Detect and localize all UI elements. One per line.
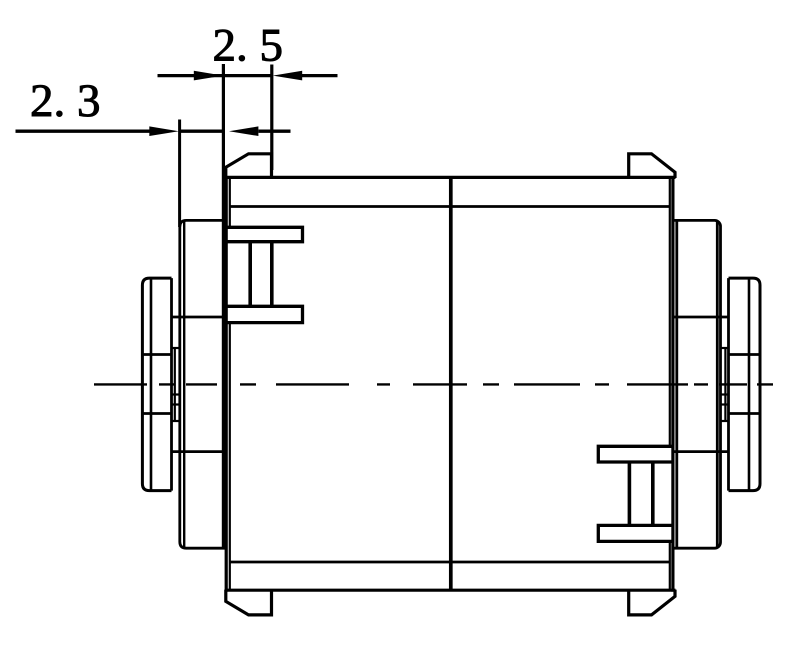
right shaft tick 4	[721, 420, 729, 422]
body left edge	[225, 176, 228, 592]
body right edge	[671, 176, 674, 592]
right terminal leg 2	[651, 462, 655, 525]
right small boss horizontal lower	[729, 412, 761, 415]
right shaft boss vertical	[724, 348, 726, 421]
dimension 2.5 arrow left	[194, 71, 223, 81]
right shaft tick 2	[721, 393, 729, 395]
left shaft tick 3	[172, 403, 180, 405]
left small boss right edge	[170, 278, 173, 491]
right end cap outer contour	[674, 220, 721, 548]
dimension 2.3 extension line	[178, 120, 181, 228]
left shaft tick 2	[172, 393, 180, 395]
right terminal bottom bar	[598, 525, 673, 541]
left shaft tick 4	[172, 420, 180, 422]
left end cap lower block top edge	[172, 450, 227, 453]
right end cap inner face line	[716, 221, 719, 548]
left small boss horizontal upper	[142, 353, 171, 356]
right end cap upper block bottom edge	[674, 316, 729, 319]
svg-text:2. 3: 2. 3	[30, 75, 101, 127]
dimension 2.3 line left	[16, 130, 151, 133]
left shaft tick 1	[172, 347, 180, 349]
left shaft boss vertical	[174, 348, 176, 421]
left terminal leg 1	[248, 242, 252, 307]
top left tab with chamfer	[226, 154, 272, 178]
right shaft tick 1	[721, 347, 729, 349]
body top edge	[225, 176, 676, 179]
bottom left tab with chamfer	[226, 590, 272, 615]
svg-text:2. 5: 2. 5	[213, 20, 284, 72]
right end cap left boundary line	[675, 220, 678, 548]
left end cap inner face line	[183, 222, 185, 547]
body inner left line lower segment	[229, 324, 231, 590]
left small boss horizontal lower	[142, 412, 171, 415]
dimension 2.5 extension line right	[270, 65, 273, 171]
left end cap outer contour	[180, 220, 227, 548]
left terminal leg 2	[270, 242, 274, 307]
right shaft tick 3	[721, 403, 729, 405]
left end cap upper block bottom edge	[172, 316, 227, 319]
body inner right line lower segment	[669, 543, 671, 590]
dimension 2.3 arrow right	[229, 126, 258, 136]
dimension 2.5 line right	[302, 74, 338, 77]
dimension 2.3 arrow left	[149, 126, 179, 136]
body inner bottom line	[230, 561, 670, 564]
right small boss outline	[729, 278, 761, 491]
bottom right tab with chamfer	[629, 590, 675, 615]
top right tab with chamfer	[629, 154, 675, 178]
dimension 2.3 line tail right	[259, 130, 291, 133]
body inner right line upper segment	[669, 179, 671, 446]
dimension 2.5 line left	[158, 74, 223, 77]
right end cap lower block top edge	[674, 450, 729, 453]
left terminal top bar	[228, 227, 303, 241]
right terminal top bar	[598, 446, 673, 462]
right small boss horizontal upper	[729, 353, 761, 356]
left small boss outline	[142, 278, 171, 491]
centerline	[94, 383, 773, 385]
body inner left line upper segment	[229, 179, 231, 227]
body inner top line	[230, 205, 670, 208]
dimension 2.5 extension line left	[222, 64, 225, 548]
left small boss inner vertical	[150, 278, 153, 491]
dimension 2.5 arrow right	[273, 71, 302, 81]
body middle vertical line	[449, 177, 453, 590]
dimension 2.3 line middle	[181, 130, 223, 133]
right small boss left edge	[727, 278, 730, 491]
dimension 2.5 line middle	[224, 74, 273, 77]
right terminal leg 1	[628, 462, 632, 525]
right small boss inner vertical	[748, 278, 751, 491]
left terminal bottom bar	[228, 306, 303, 322]
body bottom edge	[225, 589, 676, 592]
